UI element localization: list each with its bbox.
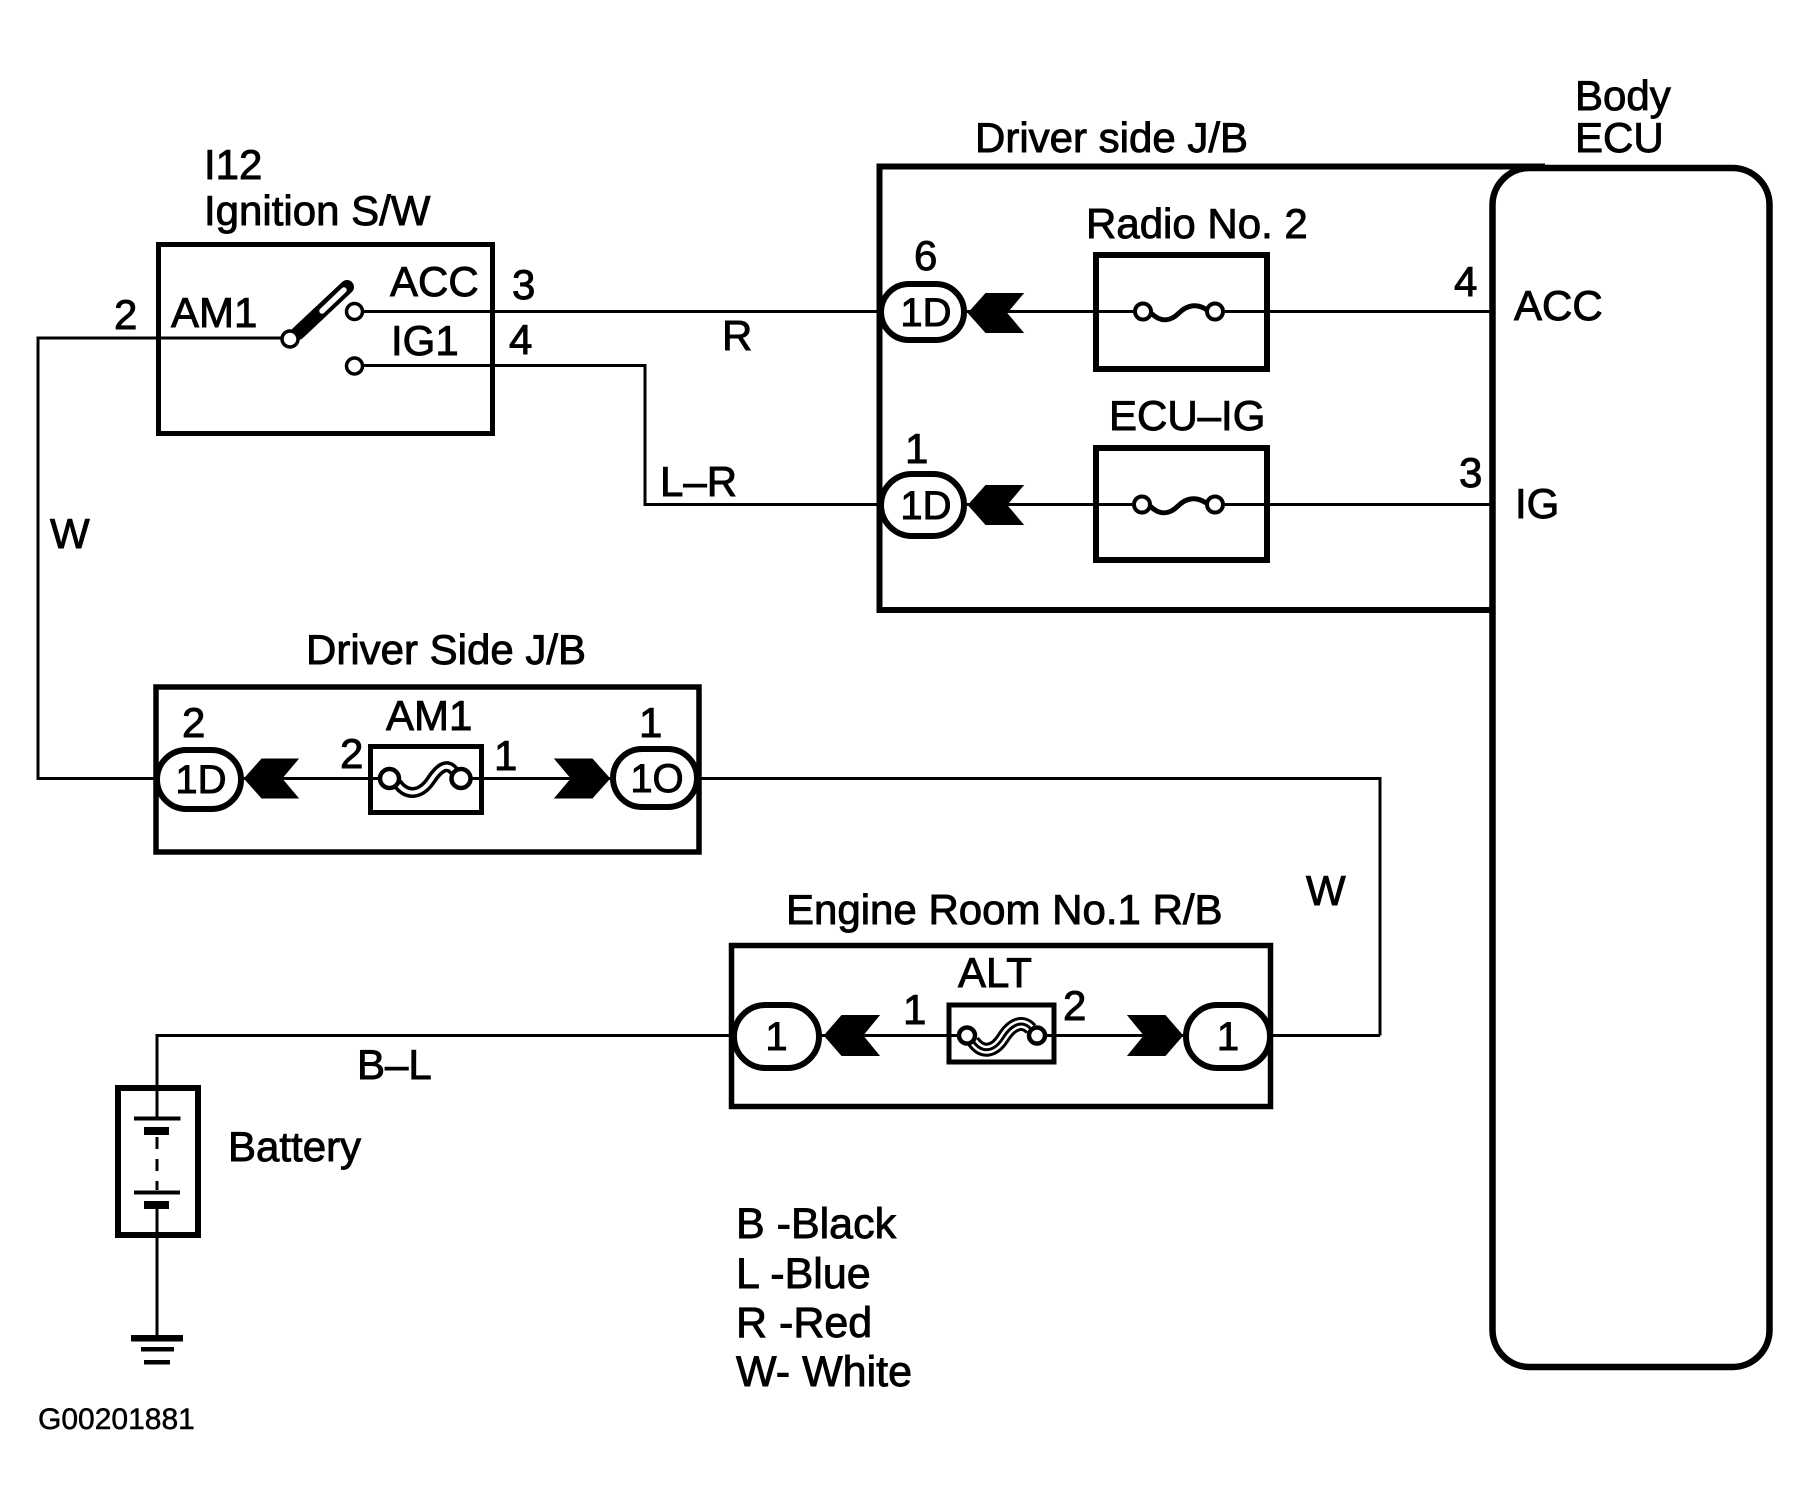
svg-text:L–R: L–R [660,458,737,505]
svg-text:2: 2 [182,699,205,746]
svg-text:1D: 1D [175,758,226,802]
svg-text:W- White: W- White [736,1348,912,1396]
svg-text:IG1: IG1 [391,317,459,364]
svg-text:1: 1 [1217,1015,1239,1059]
svg-text:4: 4 [1454,258,1477,305]
svg-text:1: 1 [905,425,928,472]
svg-text:Driver Side J/B: Driver Side J/B [306,626,586,673]
svg-text:Battery: Battery [228,1123,361,1170]
svg-text:IG: IG [1515,480,1559,527]
svg-text:1: 1 [765,1015,787,1059]
svg-text:2: 2 [1063,982,1086,1029]
svg-text:ECU: ECU [1575,114,1664,161]
svg-text:Engine Room No.1 R/B: Engine Room No.1 R/B [786,886,1223,933]
svg-text:Body: Body [1575,72,1671,119]
svg-text:AM1: AM1 [386,692,472,739]
svg-text:3: 3 [512,261,535,308]
svg-text:2: 2 [114,291,137,338]
svg-text:W: W [1306,867,1346,914]
svg-text:ALT: ALT [958,949,1032,996]
svg-text:1D: 1D [900,291,951,335]
svg-text:Radio No. 2: Radio No. 2 [1086,200,1308,247]
svg-text:1: 1 [903,986,926,1033]
svg-text:ACC: ACC [1514,282,1603,329]
svg-text:1O: 1O [630,757,683,801]
svg-text:AM1: AM1 [171,289,257,336]
svg-text:ECU–IG: ECU–IG [1109,392,1265,439]
svg-text:3: 3 [1459,449,1482,496]
svg-text:G00201881: G00201881 [38,1403,195,1436]
svg-text:4: 4 [509,316,532,363]
svg-text:2: 2 [340,730,363,777]
svg-text:ACC: ACC [390,258,479,305]
svg-text:1: 1 [639,699,662,746]
svg-text:Driver side J/B: Driver side J/B [975,114,1248,161]
svg-text:1: 1 [494,732,517,779]
svg-text:1D: 1D [900,484,951,528]
svg-text:R -Red: R -Red [736,1299,872,1347]
svg-text:I12: I12 [204,141,262,188]
svg-text:Ignition S/W: Ignition S/W [204,187,431,234]
svg-text:6: 6 [914,232,937,279]
svg-text:L -Blue: L -Blue [736,1250,871,1298]
svg-text:R: R [722,312,752,359]
svg-text:W: W [50,510,90,557]
svg-text:B–L: B–L [357,1041,432,1088]
svg-text:B -Black: B -Black [736,1200,897,1248]
